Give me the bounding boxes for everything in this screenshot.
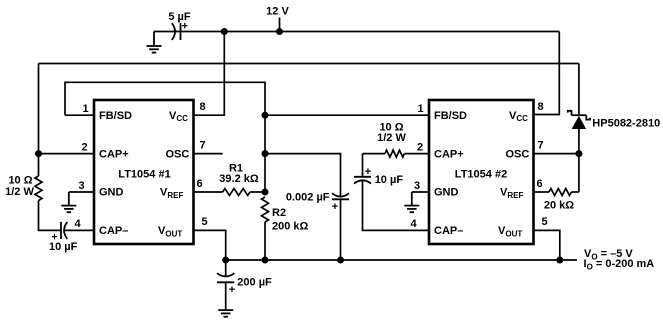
svg-text:FB/SD: FB/SD (99, 110, 132, 122)
svg-text:0.002 µF: 0.002 µF (286, 192, 330, 204)
svg-text:2: 2 (417, 141, 423, 153)
svg-text:3: 3 (79, 180, 85, 192)
ground (C3) (218, 282, 233, 316)
junction output rail at C3 (222, 257, 229, 264)
svg-text:+: + (229, 284, 235, 296)
svg-text:12 V: 12 V (266, 6, 289, 18)
wire 5uF ground lead (154, 31, 175, 33)
svg-text:5: 5 (202, 216, 208, 228)
pin number 5 U2 (542, 216, 548, 228)
svg-text:5 µF: 5 µF (168, 11, 191, 23)
svg-text:6: 6 (537, 178, 543, 190)
op-amp U2 LT1054 #2 box (429, 100, 534, 244)
resistor R1 39.2k (194, 162, 266, 195)
svg-text:IO = 0-200 mA: IO = 0-200 mA (584, 258, 655, 272)
junction output rail at U2 VOUT (556, 257, 563, 264)
svg-text:7: 7 (200, 139, 206, 151)
wire diode anode to OSC2 node (578, 129, 580, 192)
value label 5uF (168, 11, 191, 23)
wire FB/SD pin 1 of U1 (65, 114, 94, 116)
resistor R2 200k (262, 197, 309, 260)
svg-text:CAP–: CAP– (434, 225, 463, 237)
svg-text:VREF: VREF (500, 187, 523, 201)
pin number 1 U1 (83, 103, 89, 115)
svg-text:+: + (332, 201, 338, 213)
resistor 20k (534, 189, 579, 212)
svg-text:200 µF: 200 µF (237, 276, 272, 288)
pin number 8 U1 (200, 101, 206, 113)
svg-text:CAP+: CAP+ (434, 148, 464, 160)
svg-text:4: 4 (411, 218, 418, 230)
pin number 6 U1 (197, 178, 203, 190)
pin labels U2 right (498, 110, 529, 239)
svg-text:VREF: VREF (160, 187, 183, 201)
wire rail from CAP+ of U1 to diode cathode (39, 63, 579, 65)
wire VCC1 riser to pin 8 of U1 (194, 32, 225, 116)
svg-text:2: 2 (82, 141, 88, 153)
capacitor C2 10uF (U2 pump cap) (354, 166, 403, 186)
pin number 8 U2 (538, 101, 544, 113)
wire VOUT pin 5 of U1 to output rail (194, 230, 226, 260)
pin labels U2 left (434, 110, 467, 237)
svg-text:1/2 W: 1/2 W (5, 186, 34, 198)
svg-text:1: 1 (418, 103, 424, 115)
capacitor C3 200uF output (217, 260, 272, 296)
wire left drop to CAP+ node (38, 64, 40, 177)
pin number 2 U1 (82, 141, 88, 153)
junction output rail at R2 (262, 257, 269, 264)
svg-text:VCC: VCC (509, 110, 528, 123)
junction R1/R2/FB node (262, 189, 269, 196)
svg-text:GND: GND (99, 187, 124, 199)
wire 10 ohm to C1 (39, 201, 62, 231)
node output VO (584, 248, 655, 272)
svg-text:1: 1 (83, 103, 89, 115)
svg-text:LT1054 #2: LT1054 #2 (455, 168, 507, 180)
svg-text:4: 4 (75, 218, 82, 230)
diode D1 HP5082-2810 (Schottky) (568, 111, 660, 130)
pin number 4 U1 (75, 218, 82, 230)
pin number 2 U2 (417, 141, 423, 153)
svg-text:OSC: OSC (506, 148, 530, 160)
junction OSC2 node (575, 150, 582, 157)
pin number 5 U1 (202, 216, 208, 228)
wire U2 pump branch top corner (363, 154, 386, 177)
junction FB node to 0.002uF branch (262, 150, 269, 157)
svg-text:10 µF: 10 µF (49, 241, 78, 253)
svg-text:CAP–: CAP– (99, 225, 128, 237)
junction output rail at 0.002uF (337, 257, 344, 264)
capacitor C1 10uF (U1 pump cap) (49, 222, 78, 253)
svg-text:VOUT: VOUT (158, 225, 182, 239)
svg-text:3: 3 (414, 180, 420, 192)
wire FB/SD rail (65, 82, 265, 192)
svg-text:10 Ω: 10 Ω (8, 174, 32, 186)
svg-text:8: 8 (200, 101, 206, 113)
wire output rail (226, 259, 577, 261)
svg-text:1/2 W: 1/2 W (377, 132, 406, 144)
ground (5uF input cap) (147, 32, 162, 53)
junction VCC1 riser on 12V rail (221, 28, 228, 35)
svg-text:10 µF: 10 µF (375, 174, 404, 186)
pin labels U1 right (158, 110, 189, 239)
ground (U1 pin 3) (61, 192, 94, 212)
wire VOUT pin 5 of U2 to output rail (534, 230, 560, 260)
svg-text:R2: R2 (272, 207, 286, 219)
svg-text:6: 6 (197, 178, 203, 190)
capacitor 0.002uF (286, 192, 349, 214)
wire 0.002uF to output rail (340, 199, 342, 260)
svg-text:FB/SD: FB/SD (434, 110, 467, 122)
svg-text:39.2 kΩ: 39.2 kΩ (219, 173, 259, 185)
svg-text:200 kΩ: 200 kΩ (272, 221, 309, 233)
pin number 4 U2 (411, 218, 418, 230)
resistor 10 ohm 1/2W (U2) (377, 122, 429, 158)
wire FB/SD pin 1 of U2 (265, 114, 429, 116)
pin number 3 U2 (414, 180, 420, 192)
wire FB node to 0.002uF (265, 154, 341, 197)
pin number 6 U2 (537, 178, 543, 190)
svg-text:LT1054 #1: LT1054 #1 (118, 168, 170, 180)
svg-text:VCC: VCC (169, 110, 188, 123)
svg-text:5: 5 (542, 216, 548, 228)
op-amp U1 LT1054 #1 box (94, 100, 194, 244)
svg-text:8: 8 (538, 101, 544, 113)
junction CAP+ node of U1 (35, 150, 42, 157)
svg-text:20 kΩ: 20 kΩ (544, 200, 574, 212)
svg-text:OSC: OSC (166, 148, 190, 160)
wire VCC2 riser from 12V rail to pin 8 of U2 (534, 32, 560, 115)
ground (U2 pin 3) (404, 192, 429, 212)
pin number 7 U1 (200, 139, 206, 151)
svg-text:7: 7 (538, 139, 544, 151)
svg-text:+: + (365, 166, 371, 178)
junction FB node at pin 1 line of U2 (262, 112, 269, 119)
svg-text:CAP+: CAP+ (99, 148, 129, 160)
wire OSC pin 7 stub of U1 (194, 153, 223, 155)
wire C2 to CAP- pin 4 of U2 (363, 180, 430, 230)
pin number 3 U1 (79, 180, 85, 192)
wire C1 to CAP- pin 4 of U1 (64, 229, 94, 231)
svg-text:HP5082-2810: HP5082-2810 (592, 117, 660, 129)
capacitor C_in 5uF (172, 21, 188, 41)
node 12V supply (266, 6, 289, 36)
svg-text:VOUT: VOUT (498, 225, 522, 239)
wire OSC pin 7 of U2 (534, 153, 579, 155)
wire top 12V rail (175, 31, 559, 33)
resistor 10 ohm 1/2W (left) (5, 174, 42, 200)
svg-text:GND: GND (434, 187, 459, 199)
pin number 1 U2 (418, 103, 424, 115)
wire CAP+ pin 2 of U1 (39, 153, 95, 155)
pin number 7 U2 (538, 139, 544, 151)
wire rail to diode cathode (578, 64, 580, 115)
pin labels U1 left (99, 110, 132, 237)
